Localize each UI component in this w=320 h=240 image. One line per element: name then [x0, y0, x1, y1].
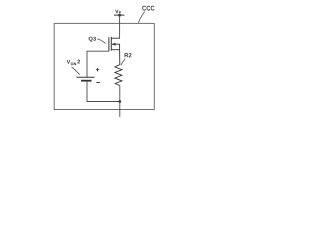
resistor R2 zigzag [115, 65, 122, 86]
node dot at Vp [118, 14, 121, 17]
leader line for R2 [121, 58, 125, 65]
node dot junction [118, 100, 121, 103]
leader line for Q3 [97, 39, 106, 44]
terminal bar Vp [114, 14, 124, 16]
transistor Q3 gate bar [108, 37, 110, 51]
label Vp [115, 10, 118, 13]
plus sign [96, 68, 99, 71]
wire battery negative to bottom rail [87, 82, 120, 102]
transistor Q3 body arrowhead [112, 43, 116, 46]
circuit enclosure box CCC [54, 23, 154, 109]
leader line for CCC [139, 12, 145, 23]
wire source of Q3 to resistor R2 [119, 50, 121, 65]
transistor Q3 source stub [111, 49, 120, 51]
wire body to source [119, 44, 121, 50]
minus sign [96, 82, 100, 84]
leader line for VGN2 [72, 67, 80, 75]
label VGN2 [67, 60, 70, 63]
transistor Q3 drain stub [111, 37, 120, 39]
transistor Q3 body stub [112, 43, 120, 45]
wire R2 to junction and output below box [119, 86, 121, 118]
battery VGN2 positive plate [77, 76, 95, 78]
label Q3 [89, 37, 96, 42]
wire Vp to drain of Q3 [119, 15, 121, 38]
transistor Q3 channel bar [110, 37, 112, 51]
battery VGN2 negative plate [81, 80, 92, 82]
label CCC [142, 6, 154, 11]
label R2 [125, 53, 132, 57]
wire gate lead to battery positive [87, 51, 109, 77]
